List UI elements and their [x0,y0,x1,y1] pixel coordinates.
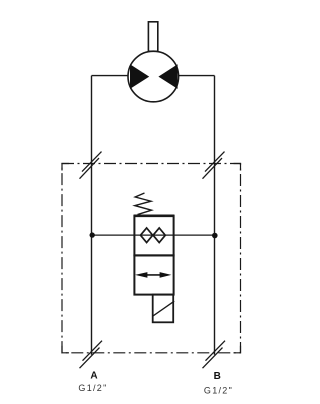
wire: right vertical (port B line) [214,76,216,355]
valve upper box thick top edge [134,215,175,218]
svg-text:B: B [214,371,221,382]
check diamond right [153,228,165,243]
svg-text:G1/2": G1/2" [204,385,233,395]
junction dot right [212,233,218,239]
spring [135,193,152,215]
port mark slashes bottom-right (port B) [203,341,226,369]
actuator small box [153,295,174,323]
svg-text:A: A [90,371,97,382]
port mark slashes bottom-left (port A) [80,341,103,369]
junction dot left [90,232,95,237]
port mark slashes top-left [80,152,102,179]
valve lower box [134,255,173,294]
subplate enclosure (dash-dot boundary) [62,164,241,353]
enclosure corner brackets [62,164,241,353]
double arrow left head [135,272,147,278]
motor triangle left [130,64,149,89]
main line between wires through valve [92,234,215,236]
wire: left vertical (port A line) [91,76,93,355]
motor shaft [148,22,157,52]
valve upper box [134,216,173,256]
check diamond left [141,228,153,243]
wire: motor right horizontal [179,75,215,77]
motor triangle right [158,64,177,89]
svg-text:G1/2": G1/2" [78,383,107,393]
actuator diagonal line [153,301,174,316]
wire: motor left horizontal [92,75,129,77]
double arrow right head [160,272,172,278]
port mark slashes top-right [203,152,225,179]
double arrow shaft [141,274,166,276]
hydraulic motor M1 [128,51,179,102]
